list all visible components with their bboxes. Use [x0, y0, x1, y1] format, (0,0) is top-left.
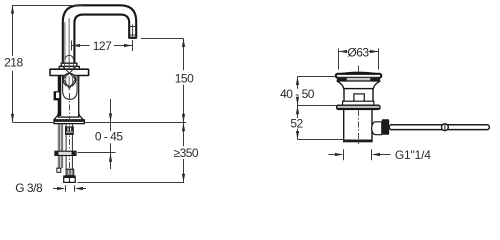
dim G1 1/4 tick right — [371, 149, 373, 160]
dim 218 arrow up — [11, 5, 14, 14]
dim 127 tick left — [71, 41, 73, 51]
dim >=350 arrow up — [182, 123, 185, 132]
dim 127 right arrow — [124, 44, 133, 47]
hose nut dark bottom band — [66, 133, 73, 134]
drain funnel — [337, 81, 381, 89]
dim 127 left shaft — [72, 45, 90, 47]
dim 40-50 extension mid — [298, 105, 337, 107]
dim G1 1/4 tick left — [343, 149, 345, 160]
dim G3/8 tick left — [65, 185, 67, 191]
dim G3/8 left arrow — [57, 187, 66, 190]
dim 0-45 upper line — [110, 99, 112, 131]
dim >=350 line upper — [183, 123, 185, 147]
seat ring — [337, 105, 380, 109]
dim O63 left arrow — [339, 50, 348, 53]
dim >=350 bottom extension line — [78, 182, 185, 184]
dim 0-45 arrow up — [109, 153, 112, 162]
dim 218 line lower — [12, 71, 14, 123]
dim 127 left arrow — [72, 44, 81, 47]
seat ring bottom edge — [337, 108, 379, 110]
handle hub circle — [63, 73, 76, 86]
pipe lines through hub — [65, 76, 67, 87]
dim 52 arrow up — [296, 106, 299, 115]
faucet body cylinder — [58, 76, 78, 118]
rod bead slit — [444, 124, 446, 130]
dim 127 tick right — [132, 40, 134, 51]
side tab thick bottom edge — [54, 98, 59, 100]
dim G1 1/4 left shaft — [328, 154, 337, 156]
spout pipe centerline — [68, 18, 70, 63]
tail pipe — [344, 109, 372, 141]
svg-text:52: 52 — [290, 116, 303, 130]
drain body — [344, 89, 373, 106]
base plate dark top band — [54, 120, 84, 122]
dim G3/8 right shaft — [83, 188, 87, 190]
threaded nipple — [66, 169, 74, 175]
dim >=350 line lower — [183, 159, 185, 182]
dim O63 tick left — [338, 49, 340, 70]
pipe lines through steps — [64, 62, 66, 69]
handle spoke diagonal 2 — [63, 66, 76, 79]
supply tube foot — [57, 168, 61, 172]
cone slant right — [69, 79, 75, 89]
svg-text:0 - 45: 0 - 45 — [95, 130, 124, 144]
centerline over tail — [358, 110, 360, 139]
drain flange underside band — [337, 78, 380, 81]
dim >=350 arrow down — [182, 174, 185, 183]
dim 218 extension line top — [13, 5, 83, 7]
hex divider — [68, 177, 70, 182]
dim 40-50 extension top — [298, 76, 337, 78]
svg-text:≥350: ≥350 — [173, 146, 198, 160]
svg-text:150: 150 — [175, 71, 194, 85]
svg-text:G1"1/4: G1"1/4 — [395, 148, 431, 162]
svg-text:127: 127 — [93, 39, 112, 53]
dim G3/8 left shaft — [53, 188, 58, 190]
spout left pipe shading line — [64, 22, 66, 63]
dim G1 1/4 right shaft — [380, 154, 391, 156]
dim 150 extension line — [141, 38, 184, 40]
lever housing cylinder — [372, 122, 382, 135]
pop-up rod — [389, 125, 489, 130]
dim G3/8 tick right — [74, 185, 76, 191]
dim 40-50/52 mid line — [297, 99, 299, 118]
body bottom step — [343, 101, 374, 105]
dim G1 1/4 left arrow — [335, 153, 344, 156]
dim G3/8 right arrow — [75, 187, 84, 190]
dim 0-45 lower line — [110, 143, 112, 169]
hose nut dark top — [66, 127, 74, 131]
hose nut block — [66, 127, 74, 134]
faucet centerline — [69, 93, 71, 180]
svg-text:Ø63: Ø63 — [347, 45, 369, 59]
lever housing black nut — [382, 119, 389, 135]
dim 40-50 arrow up — [296, 77, 299, 86]
hose nut slits — [67, 128, 69, 132]
dim 52 arrow down — [296, 131, 299, 140]
cross handle bar — [50, 69, 89, 75]
dim 150 arrow up — [182, 39, 185, 48]
aerator joint line 1 in outlet — [129, 26, 136, 28]
outlet centerline — [132, 25, 134, 37]
base flare right — [79, 113, 83, 121]
hex connector flare — [63, 175, 75, 177]
threaded shank left line — [65, 124, 67, 169]
svg-text:218: 218 — [4, 55, 23, 69]
drain centerline — [358, 66, 360, 147]
dim O63 right arrow — [370, 50, 379, 53]
supply tube lines below deck — [57, 124, 59, 168]
dim 218 arrow down — [11, 114, 14, 123]
dim 52 extension bottom — [298, 139, 344, 141]
deck line right — [84, 122, 186, 124]
overflow slot — [354, 94, 364, 103]
dim O63 left shaft — [339, 51, 348, 53]
underside dark left — [337, 78, 347, 81]
dim 0-45 arrow down — [109, 113, 112, 122]
hex connector body — [64, 177, 75, 182]
handle upper step — [61, 63, 77, 66]
nipple thread hatch — [67, 170, 69, 176]
dim 150 arrow down — [182, 114, 185, 123]
dim 40-50 line upper — [297, 77, 299, 89]
drain flange dome — [337, 72, 380, 74]
svg-text:G 3/8: G 3/8 — [15, 181, 43, 195]
aerator joint line 2 in outlet — [129, 34, 136, 36]
side tab thick left edge — [54, 92, 56, 100]
tail pipe bottom dark band — [344, 140, 372, 142]
drain flange band — [336, 74, 381, 78]
locknut washer — [55, 151, 76, 155]
base flare left — [54, 113, 58, 121]
dim 218 line upper — [12, 5, 14, 56]
cone slant left — [63, 79, 69, 89]
dim O63 right shaft — [369, 51, 379, 53]
handle spoke diagonal 1 — [63, 66, 76, 79]
body left thick shading band — [59, 76, 62, 116]
faucet spout outline — [63, 5, 136, 63]
dim 127 right shaft — [114, 45, 133, 47]
underside dark right — [370, 78, 380, 81]
dim G1 1/4 right arrow — [372, 153, 381, 156]
dim 150 line lower — [183, 85, 185, 123]
handle lower step — [59, 66, 79, 69]
locknut dark end right — [72, 151, 76, 155]
side tab on body — [54, 92, 60, 100]
threaded shank right line — [71, 124, 73, 169]
cartridge dome arc in pipe — [65, 55, 74, 59]
base plate — [54, 120, 84, 124]
rod bead — [442, 124, 449, 131]
dim O63 tick right — [378, 49, 380, 70]
locknut dark end left — [55, 151, 59, 155]
deck bottom reference line — [78, 152, 116, 154]
dim 150 line upper — [183, 39, 185, 71]
dim 52 lower line — [297, 129, 299, 140]
handle outer oval skirt (lower part) — [63, 76, 78, 100]
deck line left — [13, 122, 55, 124]
dim 40-50 arrow down — [296, 97, 299, 106]
